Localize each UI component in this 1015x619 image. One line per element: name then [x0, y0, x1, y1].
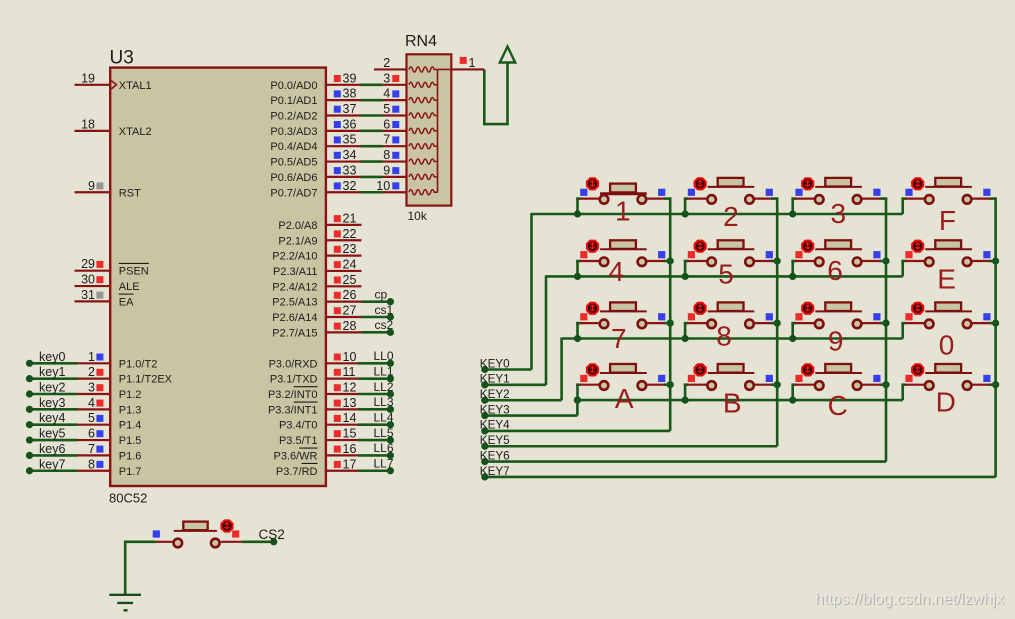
svg-text:KEY4: KEY4	[480, 419, 510, 432]
svg-text:key7: key7	[39, 457, 65, 471]
pin 9 RST	[75, 179, 142, 200]
svg-text:13: 13	[343, 396, 357, 410]
svg-text:1: 1	[469, 56, 476, 70]
pin 26 P2.5/A13	[272, 287, 394, 308]
svg-text:4: 4	[88, 396, 95, 410]
wire button C left pin drop	[791, 384, 794, 400]
wire button 8 left pin drop	[684, 322, 687, 338]
push-button F	[901, 178, 997, 236]
svg-text:19: 19	[81, 71, 95, 85]
wire RN4 pin1 to power rail	[484, 64, 507, 125]
svg-text:LL7: LL7	[374, 457, 394, 471]
column wire 2	[776, 198, 779, 447]
svg-text:1: 1	[88, 350, 95, 364]
svg-text:XTAL1: XTAL1	[119, 80, 152, 92]
svg-text:6: 6	[88, 427, 95, 441]
svg-text:RST: RST	[119, 187, 141, 199]
pin 33 P0.6/AD6 wired to RN4 pin 9	[270, 163, 406, 184]
svg-text:P0.2/AD2: P0.2/AD2	[270, 111, 317, 123]
svg-text:P3.2/INT0: P3.2/INT0	[268, 389, 318, 401]
svg-text:E: E	[937, 264, 956, 295]
svg-text:KEY1: KEY1	[480, 373, 510, 386]
svg-text:P1.2: P1.2	[119, 389, 142, 401]
svg-text:key4: key4	[39, 411, 65, 425]
svg-text:4: 4	[609, 256, 625, 287]
svg-text:KEY5: KEY5	[480, 434, 510, 447]
junction dot	[574, 273, 581, 280]
svg-text:cp: cp	[375, 287, 388, 301]
RN4 resistor element row pin 5	[409, 113, 438, 118]
pin 32 P0.7/AD7 wired to RN4 pin 10	[270, 179, 406, 200]
svg-text:P1.6: P1.6	[119, 450, 142, 462]
svg-text:D: D	[936, 387, 956, 418]
pin 29 PSEN	[75, 257, 149, 278]
pin 27 P2.6/A14	[272, 303, 394, 324]
push-button 6	[791, 240, 887, 286]
wire CS2 left to ground	[125, 542, 156, 595]
svg-text:P2.4/A12: P2.4/A12	[272, 281, 317, 293]
svg-text:3: 3	[88, 381, 95, 395]
svg-text:LL1: LL1	[374, 364, 394, 378]
svg-text:35: 35	[343, 133, 357, 147]
svg-text:P3.1/TXD: P3.1/TXD	[270, 374, 318, 386]
pin 34 P0.5/AD5 wired to RN4 pin 8	[270, 148, 406, 169]
svg-text:P2.7/A15: P2.7/A15	[272, 327, 317, 339]
svg-text:80C52: 80C52	[109, 491, 147, 506]
wire button 5 left pin drop	[684, 260, 687, 276]
wire button F left pin drop	[901, 198, 904, 214]
pin 15 P3.5/T1 with net LL5	[279, 426, 394, 447]
wire KEY1 riser	[545, 275, 548, 384]
svg-text:P2.1/A9: P2.1/A9	[278, 235, 317, 247]
svg-text:5: 5	[718, 259, 734, 290]
push-button 5	[684, 240, 779, 289]
wire KEY0 riser	[530, 213, 533, 370]
svg-text:A: A	[615, 383, 634, 414]
svg-text:7: 7	[611, 323, 627, 354]
svg-text:10k: 10k	[408, 209, 428, 223]
svg-text:2: 2	[383, 56, 390, 70]
svg-text:key6: key6	[39, 442, 65, 456]
svg-text:LL0: LL0	[374, 349, 394, 363]
RN4 resistor element row pin 2	[409, 67, 438, 72]
svg-text:key5: key5	[39, 427, 65, 441]
svg-text:P2.5/A13: P2.5/A13	[272, 297, 317, 309]
svg-text:P0.1/AD1: P0.1/AD1	[270, 95, 317, 107]
svg-text:10: 10	[343, 350, 357, 364]
pin 28 P2.7/A15	[272, 318, 394, 339]
svg-text:LL5: LL5	[374, 426, 394, 440]
junction dot	[667, 257, 674, 264]
svg-text:12: 12	[343, 381, 357, 395]
svg-text:P2.2/A10: P2.2/A10	[272, 251, 317, 263]
wire net KEY7	[480, 465, 996, 481]
wire button 0 left pin drop	[901, 322, 904, 338]
svg-text:P3.7/RD: P3.7/RD	[276, 466, 318, 478]
column wire 4	[994, 198, 997, 477]
junction dot	[574, 210, 581, 217]
pin 25 P2.4/A12	[272, 273, 361, 294]
pin 35 P0.4/AD4 wired to RN4 pin 7	[270, 133, 406, 154]
junction dot	[682, 210, 689, 217]
junction dot	[682, 397, 689, 404]
svg-text:18: 18	[81, 117, 95, 131]
wire net KEY2	[480, 388, 562, 404]
svg-text:1: 1	[615, 196, 631, 227]
svg-text:P1.3: P1.3	[119, 404, 142, 416]
row bus wire 3	[562, 337, 903, 340]
push-button 4	[576, 240, 671, 287]
ic U3 body	[110, 68, 326, 486]
svg-text:9: 9	[383, 163, 390, 177]
svg-text:8: 8	[716, 321, 732, 352]
svg-text:11: 11	[343, 365, 356, 379]
push-button B	[684, 364, 779, 419]
wire button 1 left pin drop	[576, 198, 579, 214]
svg-text:30: 30	[81, 273, 95, 287]
junction dot	[789, 397, 796, 404]
pin 38 P0.1/AD1 wired to RN4 pin 4	[270, 87, 406, 108]
svg-text:6: 6	[827, 255, 843, 286]
pin 3 P1.2 with net key2	[26, 381, 142, 402]
svg-text:37: 37	[343, 102, 357, 116]
junction dot	[992, 320, 999, 327]
wire button 6 left pin drop	[791, 260, 794, 276]
RN4 resistor element row pin 10	[409, 190, 438, 195]
power symbol arrow	[500, 47, 515, 63]
wire button 3 left pin drop	[791, 198, 794, 214]
svg-text:P0.3/AD3: P0.3/AD3	[270, 126, 317, 138]
svg-text:P1.4: P1.4	[119, 420, 142, 432]
junction dot	[992, 257, 999, 264]
wire button A left pin drop	[576, 384, 579, 400]
svg-text:P2.3/A11: P2.3/A11	[273, 266, 317, 278]
svg-text:P3.4/T0: P3.4/T0	[279, 420, 318, 432]
svg-text:16: 16	[343, 442, 357, 456]
svg-text:7: 7	[88, 442, 95, 456]
svg-text:32: 32	[343, 179, 357, 193]
svg-text:5: 5	[383, 102, 390, 116]
svg-text:P3.0/RXD: P3.0/RXD	[269, 358, 318, 370]
junction dot	[774, 320, 781, 327]
push-button 3	[791, 178, 887, 229]
pin 36 P0.3/AD3 wired to RN4 pin 6	[270, 117, 406, 138]
junction dot	[882, 320, 889, 327]
svg-text:4: 4	[383, 87, 390, 101]
RN4 resistor element row pin 8	[409, 159, 438, 164]
row bus wire 1	[532, 213, 903, 216]
svg-text:5: 5	[88, 411, 95, 425]
junction dot	[774, 381, 781, 388]
svg-text:P0.7/AD7: P0.7/AD7	[270, 187, 317, 199]
svg-text:6: 6	[383, 117, 390, 131]
svg-text:P2.6/A14: P2.6/A14	[272, 312, 317, 324]
push-button 0	[901, 302, 997, 360]
junction dot	[682, 335, 689, 342]
svg-text:https://blog.csdn.net/lzwhjx: https://blog.csdn.net/lzwhjx	[815, 591, 1004, 608]
pin 18 XTAL2	[75, 117, 152, 138]
pin 22 P2.1/A9	[278, 227, 361, 248]
push-button 1	[576, 178, 671, 226]
push-button C	[791, 364, 887, 421]
svg-text:P0.4/AD4: P0.4/AD4	[270, 141, 317, 153]
svg-text:P1.5: P1.5	[119, 435, 142, 447]
wire CS2 right to node	[242, 538, 278, 545]
wire button B left pin drop	[684, 384, 687, 400]
svg-text:P0.6/AD6: P0.6/AD6	[270, 172, 317, 184]
svg-text:29: 29	[81, 257, 95, 271]
column wire 3	[885, 198, 888, 462]
svg-text:LL4: LL4	[374, 411, 394, 425]
svg-text:KEY0: KEY0	[480, 357, 510, 370]
svg-text:F: F	[939, 205, 956, 236]
push-button D	[901, 364, 997, 418]
svg-text:KEY3: KEY3	[480, 403, 510, 416]
RN4 resistor element row pin 3	[409, 82, 438, 87]
pin 6 P1.5 with net key5	[26, 427, 142, 448]
RN4 resistor element row pin 6	[409, 128, 438, 133]
RN4 internal common bus	[437, 69, 439, 192]
svg-text:key1: key1	[39, 365, 65, 379]
pin 12 P3.2/INT0 with net LL2	[268, 380, 394, 401]
svg-text:0: 0	[939, 330, 955, 361]
svg-text:2: 2	[88, 365, 95, 379]
junction dot	[574, 335, 581, 342]
wire button E left pin drop	[901, 260, 904, 276]
junction dot	[682, 273, 689, 280]
wire net KEY3	[480, 403, 578, 419]
column wire 1	[669, 198, 672, 431]
svg-text:23: 23	[343, 242, 357, 256]
svg-text:17: 17	[343, 457, 357, 471]
pin 2 P1.1/T2EX with net key1	[26, 365, 173, 386]
push-button E	[901, 240, 997, 294]
junction dot	[789, 273, 796, 280]
svg-text:KEY6: KEY6	[480, 449, 510, 462]
row bus wire 4	[577, 399, 902, 402]
pin 39 P0.0/AD0 wired to RN4 pin 3	[270, 71, 406, 92]
pin 1 P1.0/T2 with net key0	[26, 350, 157, 371]
junction dot	[882, 381, 889, 388]
push-button A	[576, 364, 671, 414]
svg-text:31: 31	[81, 288, 95, 302]
wire button D left pin drop	[901, 384, 904, 400]
svg-text:KEY2: KEY2	[480, 388, 510, 401]
svg-text:14: 14	[343, 411, 357, 425]
wire net KEY5	[480, 434, 777, 450]
svg-text:B: B	[723, 388, 742, 419]
pin 11 P3.1/TXD with net LL1	[270, 364, 394, 385]
svg-text:C: C	[828, 390, 848, 421]
svg-text:KEY7: KEY7	[480, 465, 510, 478]
svg-text:LL3: LL3	[374, 395, 394, 409]
push-button 8	[684, 302, 779, 351]
pin 7 P1.6 with net key6	[26, 442, 142, 463]
svg-text:key2: key2	[39, 381, 65, 395]
pin 16 P3.6/WR with net LL6	[273, 441, 394, 462]
RN4 pin 1 stub to power	[451, 56, 484, 70]
resistor pack RN4 body	[407, 54, 452, 205]
svg-text:XTAL2: XTAL2	[119, 126, 152, 138]
wire button 9 left pin drop	[791, 322, 794, 338]
svg-text:34: 34	[343, 148, 357, 162]
svg-text:24: 24	[343, 257, 357, 271]
junction dot	[574, 397, 581, 404]
junction dot	[992, 381, 999, 388]
svg-text:U3: U3	[110, 48, 134, 69]
pin 17 P3.7/RD with net LL7	[276, 457, 394, 478]
pin 10 P3.0/RXD with net LL0	[269, 349, 394, 370]
watermark text	[815, 591, 1005, 609]
svg-text:3: 3	[383, 71, 390, 85]
svg-text:28: 28	[343, 319, 357, 333]
junction dot	[882, 257, 889, 264]
RN4 pin 2 stub	[374, 56, 407, 70]
wire button 4 left pin drop	[576, 260, 579, 276]
pin 5 P1.4 with net key4	[26, 411, 142, 432]
junction dot KEY3 riser joins row bus 4	[574, 397, 581, 404]
svg-text:ALE: ALE	[119, 281, 140, 293]
pin 30 ALE	[75, 273, 140, 294]
wire KEY3 riser	[576, 399, 579, 415]
svg-text:22: 22	[343, 227, 357, 241]
svg-text:P0.0/AD0: P0.0/AD0	[270, 80, 317, 92]
svg-text:9: 9	[88, 179, 95, 193]
svg-text:3: 3	[831, 198, 847, 229]
pin 4 P1.3 with net key3	[26, 396, 142, 417]
svg-text:27: 27	[343, 304, 357, 318]
junction dot	[774, 257, 781, 264]
svg-text:21: 21	[343, 211, 357, 225]
svg-text:cs2: cs2	[375, 318, 394, 332]
push-button 2	[684, 178, 779, 232]
svg-text:cs1: cs1	[375, 303, 394, 317]
svg-text:15: 15	[343, 427, 357, 441]
svg-text:26: 26	[343, 288, 357, 302]
push-button CS2	[153, 520, 285, 547]
junction dot	[667, 381, 674, 388]
svg-text:P3.5/T1: P3.5/T1	[279, 435, 318, 447]
wire net KEY1	[480, 373, 546, 389]
RN4 common to pin1 link	[438, 68, 452, 70]
pin 19 clock input chevron	[111, 81, 116, 89]
svg-text:RN4: RN4	[405, 33, 437, 50]
wire button 7 left pin drop	[576, 322, 579, 338]
pin 23 P2.2/A10	[272, 242, 361, 263]
svg-text:P1.7: P1.7	[119, 466, 142, 478]
wire net KEY6	[480, 449, 886, 465]
row bus wire 2	[546, 275, 903, 278]
pin 24 P2.3/A11	[273, 257, 361, 278]
svg-text:LL2: LL2	[374, 380, 394, 394]
svg-text:P3.6/WR: P3.6/WR	[273, 450, 317, 462]
pin 31 EA	[75, 288, 135, 309]
wire KEY2 riser	[560, 338, 563, 401]
svg-text:25: 25	[343, 273, 357, 287]
pin 37 P0.2/AD2 wired to RN4 pin 5	[270, 102, 406, 123]
wire net KEY0	[480, 357, 532, 373]
svg-text:PSEN: PSEN	[119, 266, 149, 278]
pin 21 P2.0/A8	[278, 211, 361, 232]
RN4 resistor element row pin 7	[409, 144, 438, 149]
svg-text:39: 39	[343, 71, 357, 85]
svg-text:38: 38	[343, 87, 357, 101]
svg-text:key0: key0	[39, 350, 65, 364]
svg-text:2: 2	[723, 201, 739, 232]
svg-text:P1.1/T2EX: P1.1/T2EX	[119, 374, 173, 386]
wire button 2 left pin drop	[684, 198, 687, 214]
svg-text:key3: key3	[39, 396, 65, 410]
svg-text:10: 10	[376, 179, 390, 193]
ground symbol	[109, 595, 141, 611]
svg-text:EA: EA	[119, 296, 134, 308]
push-button 7	[576, 302, 671, 354]
svg-text:8: 8	[383, 148, 390, 162]
svg-text:8: 8	[88, 457, 95, 471]
wire net KEY4	[480, 419, 670, 435]
svg-text:P1.0/T2: P1.0/T2	[119, 358, 158, 370]
svg-text:7: 7	[383, 133, 390, 147]
svg-text:33: 33	[343, 163, 357, 177]
svg-text:36: 36	[343, 117, 357, 131]
svg-text:P2.0/A8: P2.0/A8	[278, 220, 317, 232]
pin 13 P3.3/INT1 with net LL3	[268, 395, 394, 416]
svg-text:9: 9	[828, 326, 844, 357]
svg-text:LL6: LL6	[374, 441, 394, 455]
junction dot	[789, 210, 796, 217]
svg-text:P0.5/AD5: P0.5/AD5	[270, 157, 317, 169]
pin 19 XTAL1	[75, 71, 152, 92]
push-button 9	[791, 302, 887, 356]
pin 14 P3.4/T0 with net LL4	[279, 411, 394, 432]
RN4 resistor element row pin 9	[409, 174, 438, 179]
junction dot	[667, 320, 674, 327]
RN4 resistor element row pin 4	[409, 98, 438, 103]
svg-text:P3.3/INT1: P3.3/INT1	[268, 404, 318, 416]
junction dot	[789, 335, 796, 342]
pin 8 P1.7 with net key7	[26, 457, 142, 478]
